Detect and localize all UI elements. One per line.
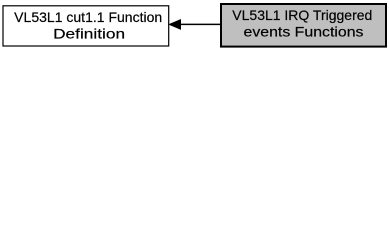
svg-text:VL53L1 IRQ Triggered: VL53L1 IRQ Triggered bbox=[232, 8, 372, 23]
node: VL53L1 IRQ Triggered events Functions (gray box) bbox=[221, 4, 386, 47]
svg-text:events Functions: events Functions bbox=[244, 25, 364, 40]
node: VL53L1 cut1.1 Function Definition (white box) bbox=[3, 6, 169, 46]
arrowhead pointing left at white node bbox=[169, 20, 180, 29]
wire: edge from gray node to white node bbox=[180, 23, 221, 25]
svg-text:Definition: Definition bbox=[53, 27, 125, 42]
svg-text:VL53L1 cut1.1 Function: VL53L1 cut1.1 Function bbox=[14, 10, 162, 25]
background bbox=[0, 0, 389, 52]
